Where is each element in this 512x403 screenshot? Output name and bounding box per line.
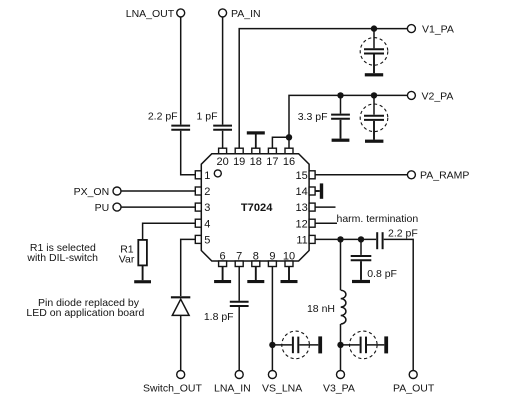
svg-text:17: 17	[266, 156, 278, 168]
wire pin 12 stub lead	[315, 222, 337, 224]
ground bar under 3.3pF	[332, 139, 350, 142]
svg-text:VS_LNA: VS_LNA	[262, 382, 302, 394]
svg-text:V2_PA: V2_PA	[422, 90, 454, 102]
ground bar under 0.8pF	[352, 280, 370, 283]
wire inductor to V3_PA	[340, 324, 342, 371]
svg-text:2.2 pF: 2.2 pF	[388, 227, 418, 239]
svg-text:1 pF: 1 pF	[196, 111, 217, 123]
svg-text:0.8 pF: 0.8 pF	[367, 268, 397, 280]
svg-text:16: 16	[283, 156, 295, 168]
svg-text:6: 6	[220, 250, 226, 262]
pin 20 stub (top)	[216, 148, 228, 168]
wire PU to pin 3	[121, 206, 195, 208]
feed-through capacitor at V3_PA (dashed circle)	[341, 331, 385, 359]
capacitor 1 pF (series, PA_IN)	[196, 111, 232, 130]
svg-text:PX_ON: PX_ON	[74, 186, 110, 198]
ground bar under R1	[134, 280, 151, 283]
svg-text:3.3 pF: 3.3 pF	[298, 111, 328, 123]
wire pin 11 to C 2.2pF	[315, 238, 376, 240]
wire pin 15 to PA_RAMP	[315, 174, 407, 176]
svg-text:with DIL-switch: with DIL-switch	[26, 252, 98, 264]
pin 1 indicator circle	[214, 170, 221, 177]
pin 4 stub (left)	[195, 218, 210, 230]
wire pin 19 up and right to V1_PA	[239, 29, 407, 149]
wire pin 7 down to C 1.8pF	[238, 267, 240, 301]
feed-through capacitor at V2_PA (dashed circle)	[360, 95, 388, 139]
op-amp/IC U1 T7024 package body	[201, 154, 309, 261]
terminal LNA_OUT	[126, 8, 185, 20]
wire R1 to ground	[142, 266, 144, 280]
terminal PA_RAMP	[407, 170, 469, 182]
svg-text:Var: Var	[119, 253, 135, 265]
RF ground bar above pin 18	[247, 131, 265, 148]
svg-text:9: 9	[269, 250, 275, 262]
inductor L1 18 nH	[307, 290, 346, 324]
svg-text:PU: PU	[95, 202, 110, 214]
capacitor 0.8 pF to ground	[351, 239, 397, 280]
pin 8 stub (bottom)	[252, 250, 260, 266]
pin 13 stub (right)	[296, 202, 316, 214]
svg-text:V1_PA: V1_PA	[422, 24, 454, 36]
pin 10 stub (bottom)	[283, 250, 295, 266]
wire C 2.2pF to pin 1	[181, 131, 196, 175]
wire C 2.2pF to PA_OUT	[384, 239, 414, 370]
ground at pin 10	[281, 267, 298, 284]
junction VS_LNA feed-through branch	[269, 342, 275, 348]
wire LNA_OUT down to C 2.2pF	[180, 17, 182, 125]
wire pin 16 up and right to V2_PA	[289, 95, 407, 148]
pin 19 stub (top)	[233, 148, 245, 168]
pin 12 stub (right)	[296, 218, 316, 230]
pin 2 stub (left)	[195, 186, 210, 198]
RF ground bar at pin 14	[315, 183, 323, 198]
feed-through capacitor at V1_PA (dashed circle)	[360, 29, 388, 74]
terminal V3_PA	[323, 371, 355, 395]
wire pin 5 to diode D1	[181, 239, 196, 296]
svg-text:15: 15	[296, 170, 308, 182]
resistor R1 (Var)	[119, 240, 147, 266]
junction on V1_PA line	[371, 25, 377, 31]
ground bar under V1_PA feed-through cap	[365, 73, 383, 76]
wire pin 17 up-right joining V2_PA line	[272, 137, 289, 148]
svg-text:8: 8	[253, 250, 259, 262]
pin 5 stub (left)	[195, 235, 210, 247]
pin 11 stub (right)	[296, 235, 315, 247]
wire pin 9 down to VS_LNA	[271, 267, 273, 371]
capacitor 1.8 pF (series, LNA_IN)	[204, 302, 249, 323]
pin 17 stub (top)	[266, 148, 278, 168]
svg-text:Switch_OUT: Switch_OUT	[143, 382, 203, 394]
pin 9 stub (bottom)	[268, 250, 276, 266]
feed-through capacitor at VS_LNA (dashed circle)	[272, 331, 318, 359]
wire diode to Switch_OUT	[180, 315, 182, 371]
junction 0.8pF branch	[358, 236, 364, 242]
junction pin17/pin16 net	[286, 134, 292, 140]
ground at pin 6	[214, 267, 231, 284]
svg-text:1.8 pF: 1.8 pF	[204, 311, 234, 323]
capacitor 2.2 pF (series, PA output)	[377, 227, 418, 249]
terminal PU	[95, 202, 121, 214]
svg-text:7: 7	[236, 250, 242, 262]
note: R1 is selected with DIL-switch	[26, 242, 98, 264]
junction inductor branch	[337, 236, 343, 242]
svg-text:18: 18	[250, 156, 262, 168]
svg-text:LNA_IN: LNA_IN	[214, 382, 251, 394]
terminal V2_PA	[407, 90, 453, 102]
svg-text:11: 11	[296, 235, 307, 247]
pin 3 stub (left)	[195, 202, 210, 214]
terminal PA_OUT	[393, 371, 435, 395]
pin 14 stub (right)	[296, 186, 316, 198]
svg-text:3: 3	[204, 202, 210, 214]
terminal PA_IN	[219, 8, 261, 20]
svg-text:20: 20	[216, 156, 228, 168]
svg-text:PA_IN: PA_IN	[231, 8, 261, 20]
svg-text:19: 19	[233, 156, 245, 168]
ground bar right of V3_PA feed-through cap	[384, 336, 388, 353]
terminal V1_PA	[407, 24, 454, 36]
svg-text:4: 4	[204, 218, 210, 230]
wire C 1pF to pin 20	[222, 131, 224, 148]
terminal LNA_IN	[214, 371, 251, 395]
svg-text:2.2 pF: 2.2 pF	[148, 111, 178, 123]
capacitor 2.2 pF (series, LNA_OUT)	[148, 111, 190, 130]
svg-text:12: 12	[296, 218, 308, 230]
svg-text:harm. termination: harm. termination	[337, 213, 419, 225]
capacitor 3.3 pF to ground	[298, 95, 350, 138]
svg-text:13: 13	[296, 202, 308, 214]
svg-text:2: 2	[204, 186, 210, 198]
pin 1 stub (left)	[195, 170, 210, 182]
svg-text:1: 1	[204, 170, 210, 182]
junction feed-through on V2_PA line	[371, 92, 377, 98]
pin 16 stub (top)	[283, 148, 295, 168]
ground at pin 8	[247, 267, 264, 284]
svg-text:10: 10	[283, 250, 295, 262]
svg-text:LNA_OUT: LNA_OUT	[126, 8, 175, 20]
wire PX_ON to pin 2	[121, 190, 195, 192]
svg-text:14: 14	[296, 186, 308, 198]
pin 7 stub (bottom)	[235, 250, 243, 266]
wire pin 4 to R1	[143, 223, 196, 240]
wire junction down to inductor L1	[340, 239, 342, 290]
svg-text:PA_OUT: PA_OUT	[393, 382, 435, 394]
wire C 1.8pF to LNA_IN	[238, 307, 240, 371]
ground bar under V2_PA feed-through cap	[365, 140, 383, 143]
terminal PX_ON	[74, 186, 121, 198]
svg-text:T7024: T7024	[241, 202, 273, 214]
wire PA_IN down to C 1pF	[222, 17, 224, 125]
junction 3.3pF on V2_PA line	[337, 92, 343, 98]
diode D1 (pin diode)	[171, 297, 190, 315]
svg-text:LED on application board: LED on application board	[26, 307, 144, 319]
svg-text:V3_PA: V3_PA	[323, 382, 355, 394]
terminal Switch_OUT	[143, 371, 203, 395]
pin 18 stub (top)	[250, 148, 262, 168]
svg-text:PA_RAMP: PA_RAMP	[420, 170, 469, 182]
pin 6 stub (bottom)	[219, 250, 227, 266]
svg-text:5: 5	[204, 235, 210, 247]
terminal VS_LNA	[262, 371, 302, 395]
ground bar right of VS_LNA feed-through cap	[318, 336, 322, 353]
junction V3_PA feed-through branch	[337, 342, 343, 348]
note: Pin diode replaced by LED on application board	[26, 297, 144, 319]
wire pin 13 stub lead	[315, 206, 335, 208]
pin 15 stub (right)	[296, 170, 316, 182]
svg-text:18 nH: 18 nH	[307, 303, 335, 315]
